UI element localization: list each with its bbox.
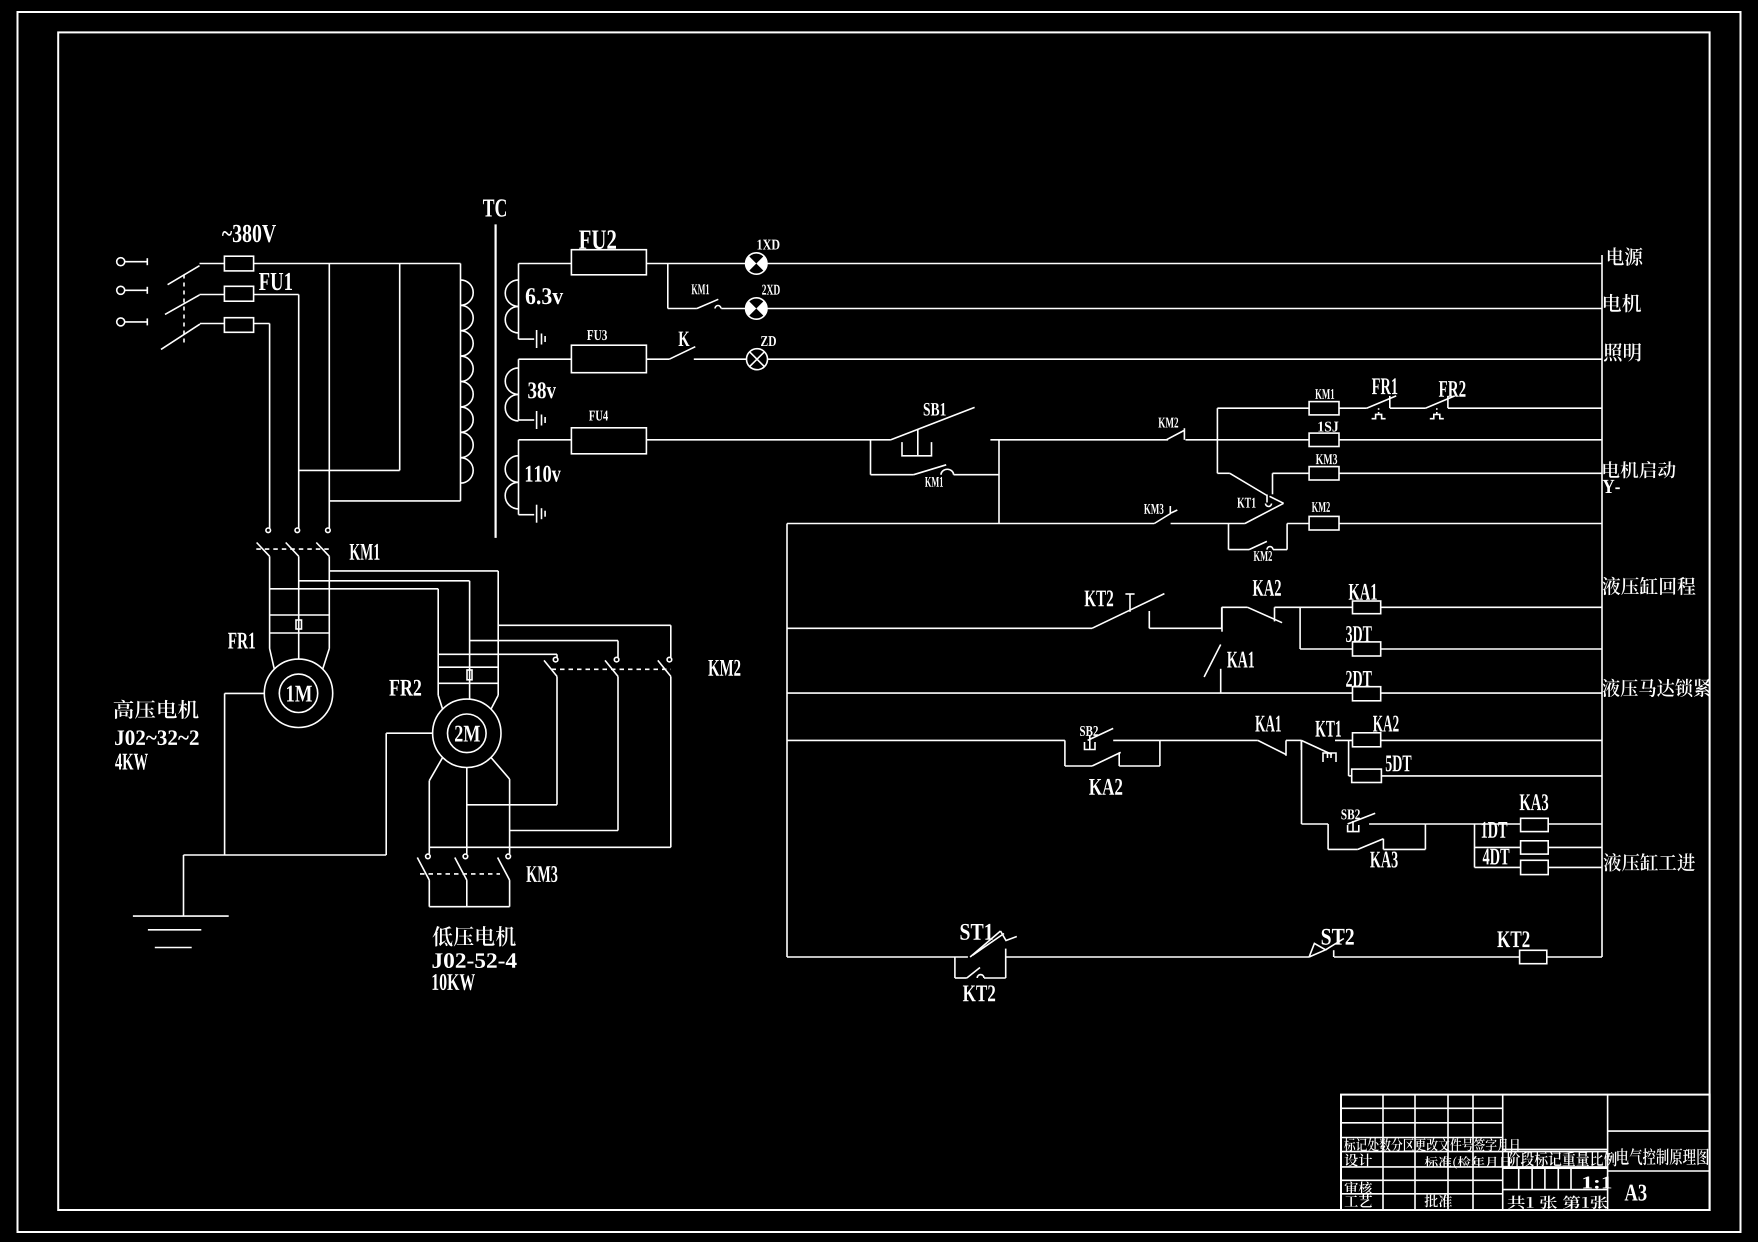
relay coil KA2 [1353, 733, 1381, 747]
label low voltage motor [432, 926, 515, 946]
label FU2 [579, 230, 616, 249]
wire KM2 pole2 to 2M right lead [510, 830, 618, 832]
label KA2 [1373, 716, 1399, 732]
wire branch to 3DT [1299, 607, 1301, 649]
ground symbol 6.3v winding [519, 338, 535, 340]
wire ST1 to ST2 [1006, 956, 1310, 958]
wire 4DT to right bus [1548, 866, 1602, 868]
contactor coil KM3 [1309, 467, 1339, 480]
wire 2M phase feeds down [437, 589, 439, 696]
solenoid coil 5DT [1352, 769, 1382, 782]
fuse FU4 [571, 428, 646, 454]
wire KM3 contact to KT1 [1171, 523, 1245, 525]
disconnect switch QS blade 1 [168, 266, 200, 285]
wire 5DT to right bus [1381, 775, 1602, 777]
label KA1 [1349, 584, 1377, 600]
label lighting net [1604, 343, 1641, 362]
switch linkage dashed [183, 275, 185, 346]
contact KA2 NC [1248, 607, 1283, 622]
wire branch phase B to 2M [299, 580, 470, 582]
wire switch K to lamp ZD [694, 358, 747, 360]
wire to 1DT [1475, 846, 1521, 848]
wire 110v to FU4 [519, 439, 572, 441]
contact KT1 delayed NC [1300, 740, 1302, 750]
label power net [1608, 247, 1643, 266]
wire FR1 to FR2 contact [1390, 407, 1425, 409]
title block grid [1382, 1095, 1384, 1210]
label Y- [1603, 480, 1620, 493]
title block outline [1341, 1095, 1710, 1210]
title drawing name electrical control schematic [1617, 1148, 1708, 1165]
wire KA1 coil to right bus [1381, 606, 1602, 608]
label KM2 [1254, 551, 1272, 561]
label KT2 [1497, 931, 1529, 947]
fuse FU3 [571, 345, 646, 373]
wire loop to KM2 coil [1273, 549, 1287, 551]
label hydraulic motor lock [1602, 679, 1710, 697]
wire branch work feed to KA3 row [1301, 740, 1303, 824]
label KM2 [1312, 502, 1330, 512]
wire 2M bottom leads [429, 758, 442, 781]
wire 2DT to right bus [1381, 692, 1602, 694]
wire left rail to ST1 [787, 956, 968, 958]
ground symbol [183, 855, 185, 916]
wire KM3 star point [429, 906, 509, 908]
relay coil KT2 [1520, 950, 1547, 963]
contact KM1 auxiliary NO [697, 299, 718, 308]
title standard date [1425, 1156, 1511, 1169]
label KM1 [925, 477, 943, 487]
wire phase B top [200, 294, 225, 296]
wire phase A vertical drop [328, 264, 330, 529]
label FR2 [1439, 381, 1466, 397]
label high voltage motor [114, 700, 199, 719]
ground symbol 110v winding [519, 514, 535, 516]
label KA2 [1253, 580, 1281, 596]
junction vertical to KM2-coil row [998, 440, 1000, 524]
wire left rail to KM3 contact [787, 523, 1154, 525]
wire KA3 block to coil KA3 [1425, 823, 1520, 825]
disconnect switch QS blade 3 [161, 324, 200, 349]
wire KM2 pole3 to 2M left lead [429, 846, 671, 848]
wire branch phase A to 2M [270, 588, 439, 590]
label KM2 [708, 660, 740, 676]
label KA1 [1227, 652, 1254, 668]
wire KA3 coil to right bus [1548, 823, 1602, 825]
label 3DT [1346, 626, 1372, 642]
contact FR1 thermal NC [1367, 396, 1397, 408]
title row marks [1344, 1138, 1519, 1152]
label J02-52-4 [432, 953, 516, 968]
label KA3 [1520, 794, 1549, 810]
label hydraulic cylinder work feed [1604, 853, 1695, 871]
left rail of control circuit [786, 524, 788, 958]
wire phase C vertical drop [269, 324, 271, 529]
wire ST2 to KT2 coil [1334, 956, 1520, 958]
contactor KM1 main contacts [266, 528, 271, 533]
title A3 [1625, 1185, 1647, 1201]
indicator lamp 1XD [746, 253, 767, 274]
wire branch phase C to 2M [329, 570, 498, 572]
contactor coil KM1 [1309, 402, 1339, 415]
label 5DT [1386, 755, 1412, 771]
label KA1 [1255, 716, 1281, 732]
label ~380V [222, 225, 276, 243]
label 2XD [762, 285, 780, 295]
wire branch to KM2 pole 3 [498, 624, 671, 626]
label TC [483, 199, 506, 216]
pushbutton SB2 NC with KA2 parallel [1064, 740, 1066, 766]
contactor KM3 main contacts [426, 854, 431, 859]
solenoid coil 4DT [1521, 860, 1549, 874]
wire KT1 to KA2 coil [1335, 739, 1353, 741]
thermal relay FR1 heaters [270, 614, 330, 616]
label KT2 [1084, 590, 1113, 606]
label KT2 [963, 985, 995, 1001]
relay coil KA3 [1521, 818, 1549, 831]
wire branch to 5DT [1348, 740, 1350, 776]
wire left rail to KT2 contact [787, 627, 1092, 629]
wire KA1 to KT1 contact [1286, 739, 1301, 741]
lamp ZD [747, 349, 768, 370]
three-phase source terminal L1 [117, 258, 125, 266]
wire KM1 contact to lamp 2XD [721, 308, 745, 310]
label ZD [761, 336, 776, 346]
label 1SJ [1318, 422, 1338, 432]
label KT1 [1237, 498, 1255, 508]
wire 2M top leads [438, 695, 442, 709]
wire transformer primary bottom lead [329, 500, 460, 502]
wire FU3 to switch K [646, 358, 669, 360]
wire 1M leads [270, 649, 275, 670]
label 110v [526, 466, 561, 482]
indicator lamp 2XD [746, 298, 767, 319]
wire lamp ZD to right bus [768, 358, 1603, 360]
label 1XD [758, 240, 780, 250]
pushbutton SB1 NC [891, 407, 975, 439]
contactor coil KM2 [1309, 516, 1339, 530]
label motor net [1604, 294, 1641, 313]
fuse FU1 pole 2 [224, 286, 253, 301]
wire to 4DT [1475, 866, 1521, 868]
label K [678, 332, 689, 346]
label motor start [1603, 461, 1675, 478]
wire junction to KM1 coil [1216, 408, 1218, 473]
label KA2 [1089, 779, 1122, 795]
title scale 1:1 [1583, 1177, 1611, 1189]
label 10KW [433, 974, 475, 990]
wire 38v to FU3 [519, 358, 572, 360]
transformer secondary winding 110v [518, 440, 520, 515]
wire branch to KM2 pole 2 [470, 640, 618, 642]
wire left rail to SB2 [787, 739, 1065, 741]
contact KT2 delayed NO [1092, 594, 1164, 629]
wire motor frames to ground [225, 692, 265, 694]
label 1DT [1482, 822, 1508, 838]
pushbutton SB2 NC with KA3 parallel [1327, 824, 1329, 849]
solenoid coil 3DT [1353, 642, 1381, 656]
label 2DT [1346, 671, 1372, 687]
fuse FU2 [571, 250, 646, 275]
contact KT1 lower blade [1245, 503, 1284, 523]
label ST1 [961, 924, 993, 940]
wire phase A top [200, 263, 225, 265]
wire KM2 pole outputs [556, 676, 558, 804]
thermal relay FR2 heaters [438, 666, 498, 668]
label J02~32~2 [115, 730, 199, 745]
wire 1DT to right bus [1548, 846, 1602, 848]
wire KM1 self-hold to junction [954, 474, 999, 476]
label 6.3v [526, 288, 563, 304]
label KA3 [1370, 852, 1398, 868]
label KM1 [691, 284, 709, 294]
wire phase B vertical drop [298, 295, 300, 529]
wire KA2 contact to KA1 coil [1275, 606, 1353, 608]
contact KA1 NO [1258, 740, 1286, 754]
label KM3 [1144, 504, 1163, 514]
title design [1345, 1154, 1373, 1167]
contact KA3 NO parallel branch [1328, 848, 1358, 850]
title check [1345, 1181, 1373, 1194]
limit switch ST1 [970, 931, 1000, 957]
wire branch to KM2 pole 1 [438, 653, 557, 655]
limit switch ST2 [1309, 943, 1326, 957]
title craft [1345, 1194, 1373, 1207]
transformer TC core [495, 224, 497, 538]
contact KA1 NO vertical [1221, 607, 1223, 631]
wire FU4 to SB1 [646, 439, 891, 441]
wire 3DT to right bus [1381, 648, 1602, 650]
wire FR2 to right bus [1448, 407, 1602, 409]
contact KM1 self-hold NO [914, 465, 947, 475]
wire KM2 contact to relay 1SJ [1186, 439, 1310, 441]
solenoid coil 2DT [1353, 687, 1381, 701]
wire KM2 bypass loop [1228, 524, 1230, 550]
wire KA2 coil to right bus [1381, 739, 1602, 741]
fuse FU1 pole 1 [224, 256, 253, 271]
fuse FU1 pole 3 [224, 318, 253, 333]
label FR2 [389, 680, 421, 696]
contact KA2 NO parallel branch [1065, 765, 1092, 767]
wire FU2 to lamp 1XD [646, 263, 745, 265]
ground symbol 38v winding [519, 419, 535, 421]
contact KT2 NO parallel with ST1 [954, 957, 956, 978]
wire branch to KM1 aux contact [667, 264, 669, 309]
transformer secondary winding 6.3v [518, 264, 520, 340]
label KM3 [1316, 454, 1337, 464]
wire transformer primary feed [399, 264, 401, 471]
label FR1 [1372, 378, 1397, 394]
label SB2 [1080, 726, 1098, 736]
switch K [669, 347, 695, 360]
label KT1 [1315, 721, 1341, 737]
contact KM2 auxiliary NO in loop [1249, 541, 1267, 549]
right bus vertical [1601, 255, 1603, 957]
label SB1 [924, 403, 946, 416]
solenoid coil 1DT [1521, 841, 1549, 854]
wire lamp 1XD to right bus [767, 263, 1602, 265]
label 4DT [1483, 849, 1510, 865]
title sheet count [1508, 1196, 1608, 1209]
label FU4 [589, 411, 608, 421]
label 38v [528, 382, 556, 398]
wire KM2 coil to right bus [1339, 523, 1602, 525]
label SB2 [1341, 809, 1359, 819]
label KM1 [350, 544, 380, 560]
disconnect switch QS blade 2 [165, 295, 200, 315]
wire KT2 coil to right bus [1547, 956, 1602, 958]
wire 6.3v to FU2 [519, 263, 572, 265]
wire KT2 to KA2 contact [1149, 627, 1221, 629]
wire KM2 pole1 to 2M middle lead [467, 804, 557, 806]
title stage mark weight scale [1508, 1152, 1617, 1167]
wire 1SJ to right bus [1339, 439, 1602, 441]
wire phase C top [200, 323, 224, 325]
wire branch to KM1 self-hold contact [870, 440, 872, 475]
label 4KW [115, 754, 148, 770]
three-phase source terminal L3 [117, 318, 125, 326]
wire KM3 coil row [1272, 473, 1274, 494]
transformer secondary winding 38v [518, 359, 520, 420]
contact KM2 auxiliary NO [1166, 431, 1184, 440]
relay coil 1SJ [1309, 433, 1339, 446]
motor 2M [433, 699, 501, 767]
wire lamp 2XD to right bus [767, 308, 1602, 310]
wire branch to 1DT 4DT [1474, 824, 1476, 867]
label KM3 [526, 866, 557, 882]
label FR1 [228, 633, 255, 649]
three-phase source terminal L2 [117, 286, 125, 294]
motor 1M [264, 659, 332, 727]
title approve [1425, 1194, 1452, 1207]
transformer TC primary winding [460, 264, 462, 501]
contactor KM2 main contacts [553, 657, 558, 662]
relay coil KA1 [1353, 601, 1381, 614]
contact FR2 thermal NC [1425, 396, 1454, 408]
wire left rail to 2DT coil [787, 692, 1353, 694]
label FU1 [259, 273, 292, 290]
wire KM1 coil to FR1 contact [1339, 407, 1367, 409]
label hydraulic cylinder return [1602, 577, 1695, 595]
wire KM3 coil to right bus [1339, 472, 1602, 474]
label KM1 [1315, 389, 1334, 399]
wire KM1 outputs down [269, 556, 271, 648]
contact KT1 delayed [1217, 472, 1229, 474]
label FU3 [587, 330, 607, 340]
wire SB2 to KA1 contact [1113, 739, 1160, 741]
contact KM3 auxiliary NO [1154, 514, 1170, 524]
wire SB1 to junction [990, 439, 1168, 441]
label KM2 [1158, 418, 1178, 428]
label ST2 [1322, 929, 1354, 945]
